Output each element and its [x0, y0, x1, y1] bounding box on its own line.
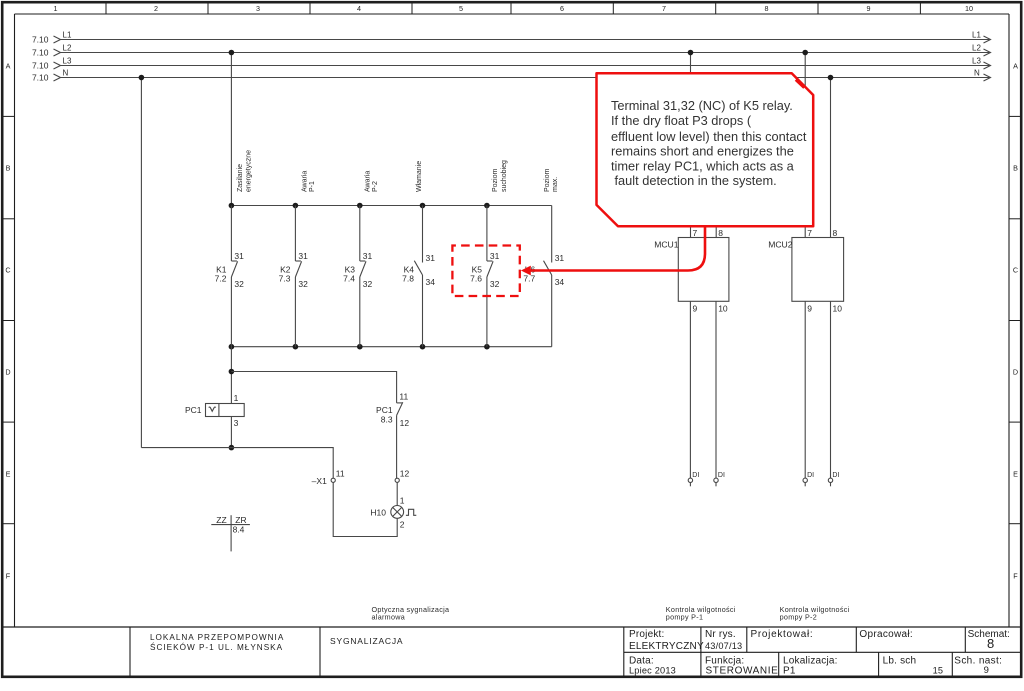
- svg-text:L1: L1: [63, 31, 72, 40]
- svg-text:MCU1: MCU1: [654, 239, 679, 249]
- svg-text:8: 8: [765, 4, 769, 13]
- svg-text:timer relay PC1, which acts as: timer relay PC1, which acts as a: [611, 158, 795, 173]
- svg-text:SYGNALIZACJA: SYGNALIZACJA: [330, 636, 403, 646]
- svg-text:11: 11: [336, 469, 345, 479]
- svg-text:D: D: [5, 368, 10, 377]
- svg-text:10: 10: [965, 4, 973, 13]
- svg-text:ZR: ZR: [235, 515, 246, 525]
- column number ticks: [106, 2, 920, 14]
- svg-text:9: 9: [984, 665, 989, 676]
- red dashed highlight box around K5: [452, 246, 519, 297]
- svg-text:7.4: 7.4: [343, 274, 355, 284]
- node N junction: [139, 75, 145, 81]
- svg-text:6: 6: [560, 4, 564, 13]
- svg-text:7.10: 7.10: [32, 61, 49, 71]
- row letters right A-F: [1013, 62, 1018, 581]
- svg-text:DI: DI: [807, 472, 814, 479]
- svg-text:8: 8: [987, 636, 994, 651]
- svg-text:7: 7: [807, 228, 812, 238]
- wire bottom bus: [231, 346, 551, 348]
- row letters left A-F: [5, 62, 10, 581]
- terminal DI 3: [803, 472, 814, 487]
- svg-text:PC1: PC1: [376, 405, 393, 415]
- cross-reference ZZ ZR 8.4: [211, 515, 250, 551]
- svg-text:Awaria: Awaria: [365, 171, 372, 192]
- svg-text:C: C: [1013, 266, 1018, 275]
- terminal pin 12: [395, 469, 409, 483]
- wire MCU2 pin9 to DI: [804, 301, 806, 478]
- label Kontrola wilgotnosci pompy P-2: [780, 605, 850, 622]
- wire -X1 down and across: [333, 482, 397, 536]
- node coil bottom junction: [229, 445, 235, 451]
- svg-text:Projekt:: Projekt:: [629, 629, 665, 640]
- terminal DI 4: [828, 472, 839, 487]
- svg-text:31: 31: [555, 253, 565, 263]
- svg-text:L2: L2: [972, 44, 981, 53]
- svg-text:15: 15: [933, 666, 944, 676]
- svg-text:Opracował:: Opracował:: [859, 629, 913, 640]
- svg-text:7.8: 7.8: [402, 274, 414, 284]
- svg-text:2: 2: [154, 4, 158, 13]
- label Optyczna sygnalizacja alarmowa: [372, 605, 450, 622]
- svg-text:7.10: 7.10: [32, 48, 49, 58]
- wire L2 drop to contact bus: [230, 53, 232, 206]
- svg-text:Lb. sch: Lb. sch: [883, 655, 917, 666]
- svg-text:Poziom: Poziom: [492, 168, 499, 192]
- svg-text:43/07/13: 43/07/13: [705, 641, 742, 651]
- svg-text:31: 31: [298, 251, 308, 261]
- svg-text:L3: L3: [63, 57, 72, 66]
- label Poziom max: [544, 168, 559, 192]
- svg-text:10: 10: [718, 304, 728, 314]
- svg-text:34: 34: [426, 277, 436, 287]
- wire MCU2 pin8 from N: [830, 78, 832, 238]
- label Wlamanie: [416, 161, 423, 192]
- svg-text:7: 7: [693, 228, 698, 238]
- svg-text:8.3: 8.3: [381, 415, 393, 425]
- contact K3 (NC 31-32): [343, 206, 372, 347]
- svg-text:N: N: [63, 69, 69, 78]
- node L2 to MCU2: [802, 50, 808, 56]
- svg-text:7.7: 7.7: [523, 274, 535, 284]
- contact K4 (NO 31-34): [402, 206, 435, 347]
- svg-text:LOKALNA PRZEPOMPOWNIA: LOKALNA PRZEPOMPOWNIA: [150, 633, 284, 642]
- svg-text:P-2: P-2: [372, 181, 379, 192]
- svg-text:Projektował:: Projektował:: [751, 629, 814, 640]
- label Awaria P-2: [365, 171, 380, 192]
- title block texts: [150, 629, 1010, 677]
- svg-text:ELEKTRYCZNY: ELEKTRYCZNY: [629, 641, 704, 652]
- label Awaria P-1: [302, 171, 317, 192]
- svg-text:suchobieg: suchobieg: [501, 160, 508, 192]
- svg-text:ŚCIEKÓW P-1 UL. MŁYNSKA: ŚCIEKÓW P-1 UL. MŁYNSKA: [150, 641, 283, 652]
- lamp H10: [370, 496, 404, 530]
- svg-text:DI: DI: [718, 472, 725, 479]
- svg-text:10: 10: [833, 304, 843, 314]
- contact PC1 8.3 (NC 11-12): [376, 392, 409, 428]
- rail L3: [32, 57, 991, 71]
- wire MCU1 pin9 to DI: [689, 301, 691, 478]
- svg-text:32: 32: [490, 279, 500, 289]
- contact K2 (NC 31-32): [279, 206, 308, 347]
- svg-text:2: 2: [400, 519, 405, 529]
- svg-text:ZZ: ZZ: [216, 515, 226, 525]
- svg-text:7.3: 7.3: [279, 274, 291, 284]
- svg-text:5: 5: [459, 4, 463, 13]
- svg-text:31: 31: [234, 251, 244, 261]
- label Zasilanie energetyczne: [237, 150, 253, 192]
- wire PC1 coil to N loop: [230, 417, 232, 448]
- svg-text:32: 32: [298, 279, 308, 289]
- label Poziom suchobieg: [492, 160, 508, 192]
- svg-text:P1: P1: [783, 666, 796, 677]
- module MCU2: [768, 228, 843, 314]
- svg-text:12: 12: [400, 418, 410, 428]
- wire bottom bus to PC1 coil: [230, 347, 232, 404]
- svg-text:fault detection in the system.: fault detection in the system.: [615, 173, 777, 188]
- contact K5 (NC 31-32): [470, 206, 499, 347]
- svg-text:7.6: 7.6: [470, 274, 482, 284]
- wire MCU2 pin7 from L2: [804, 53, 806, 238]
- svg-text:MCU2: MCU2: [768, 239, 793, 249]
- svg-text:Awaria: Awaria: [302, 171, 309, 192]
- svg-text:STEROWANIE: STEROWANIE: [706, 666, 779, 677]
- svg-text:9: 9: [867, 4, 871, 13]
- svg-text:31: 31: [426, 253, 436, 263]
- svg-text:9: 9: [807, 304, 812, 314]
- node branch junction: [229, 369, 235, 375]
- rail L1: [32, 31, 991, 45]
- wire MCU1 pin8 from N: [715, 78, 717, 238]
- svg-text:7.10: 7.10: [32, 35, 49, 45]
- relay coil PC1: [185, 393, 244, 428]
- svg-text:H10: H10: [370, 507, 386, 517]
- svg-text:DI: DI: [692, 472, 699, 479]
- svg-text:E: E: [1013, 470, 1018, 479]
- svg-text:L3: L3: [972, 57, 981, 66]
- svg-text:pompy P-2: pompy P-2: [780, 613, 817, 622]
- wire MCU1 pin7 from L2: [690, 53, 692, 238]
- svg-text:F: F: [6, 572, 11, 581]
- svg-text:7.2: 7.2: [215, 274, 227, 284]
- node N to MCU2: [828, 75, 834, 81]
- contact K1 (NC 31-32): [215, 206, 244, 347]
- svg-text:11: 11: [399, 392, 408, 402]
- svg-text:B: B: [1013, 164, 1018, 173]
- red callout box: [597, 73, 814, 226]
- wire N drop to PC1 loop: [140, 78, 142, 448]
- rail N: [32, 69, 991, 83]
- svg-text:L1: L1: [972, 31, 981, 40]
- svg-text:energetyczne: energetyczne: [246, 150, 253, 192]
- row letter ticks right: [1009, 116, 1022, 523]
- svg-text:1: 1: [54, 4, 58, 13]
- red leader line with arrow: [521, 226, 705, 275]
- svg-text:32: 32: [363, 279, 373, 289]
- svg-text:12: 12: [400, 469, 410, 479]
- node bottom bus junctions: [229, 344, 490, 350]
- svg-text:E: E: [6, 470, 11, 479]
- wire MCU1 pin10 to DI: [715, 301, 717, 478]
- svg-text:32: 32: [234, 279, 244, 289]
- svg-text:effluent low level) then this: effluent low level) then this contact: [611, 129, 807, 144]
- svg-text:4: 4: [357, 4, 361, 13]
- svg-text:31: 31: [490, 251, 500, 261]
- svg-text:L2: L2: [63, 44, 72, 53]
- wire top bus: [231, 205, 551, 207]
- svg-text:PC1: PC1: [185, 405, 202, 415]
- svg-text:DI: DI: [832, 472, 839, 479]
- wire N loop horizontal: [141, 448, 333, 479]
- svg-text:1: 1: [234, 393, 239, 403]
- svg-text:7: 7: [662, 4, 666, 13]
- svg-text:1: 1: [400, 496, 405, 506]
- contact K6 (NO 31-34): [523, 206, 564, 347]
- svg-text:max.: max.: [552, 177, 559, 192]
- blink symbol: [406, 509, 416, 515]
- svg-text:F: F: [1013, 572, 1018, 581]
- node L2 to MCU1: [688, 50, 694, 56]
- wire branch to PC1 contact: [231, 372, 396, 403]
- svg-text:Lpiec 2013: Lpiec 2013: [629, 666, 676, 676]
- rail L2: [32, 44, 991, 58]
- svg-text:N: N: [974, 69, 980, 78]
- svg-text:9: 9: [693, 304, 698, 314]
- svg-text:alarmowa: alarmowa: [372, 613, 406, 622]
- terminal -X1 pin 11: [312, 469, 345, 486]
- terminal DI 2: [714, 472, 725, 487]
- svg-text:If the dry float P3 drops (: If the dry float P3 drops (: [611, 113, 752, 128]
- svg-text:3: 3: [256, 4, 260, 13]
- svg-text:remains short and energizes th: remains short and energizes the: [611, 144, 794, 159]
- label Kontrola wilgotnosci pompy P-1: [666, 605, 736, 622]
- svg-text:Poziom: Poziom: [544, 168, 551, 192]
- module MCU1: [654, 228, 729, 314]
- svg-text:8: 8: [718, 228, 723, 238]
- row letter ticks left: [2, 116, 15, 523]
- svg-text:3: 3: [234, 418, 239, 428]
- node top bus junctions: [229, 203, 490, 209]
- svg-text:31: 31: [363, 251, 373, 261]
- svg-text:7.10: 7.10: [32, 73, 49, 83]
- column numbers 1-10: [54, 4, 974, 13]
- svg-text:8.4: 8.4: [233, 525, 245, 535]
- title block: [130, 627, 1022, 677]
- svg-text:D: D: [1013, 368, 1018, 377]
- svg-text:Terminal 31,32 (NC) of K5 rela: Terminal 31,32 (NC) of K5 relay.: [611, 98, 793, 113]
- svg-text:B: B: [6, 164, 11, 173]
- wire terminal 12 up to PC1 contact: [396, 415, 398, 478]
- svg-text:–X1: –X1: [312, 476, 327, 486]
- svg-text:A: A: [1013, 62, 1018, 71]
- wire lamp to terminal 12: [396, 482, 398, 505]
- terminal DI 1: [688, 472, 699, 487]
- svg-text:Włamanie: Włamanie: [416, 161, 423, 192]
- svg-text:C: C: [5, 266, 10, 275]
- svg-text:A: A: [6, 62, 11, 71]
- svg-text:pompy P-1: pompy P-1: [666, 613, 703, 622]
- callout text: [611, 98, 807, 188]
- node L2 junction: [229, 50, 235, 56]
- svg-text:Nr rys.: Nr rys.: [705, 629, 736, 640]
- svg-text:34: 34: [555, 277, 565, 287]
- svg-text:P-1: P-1: [309, 181, 316, 192]
- wire MCU2 pin10 to DI: [830, 301, 832, 478]
- svg-text:Zasilanie: Zasilanie: [237, 164, 244, 192]
- svg-text:8: 8: [833, 228, 838, 238]
- svg-text:Sch. nast:: Sch. nast:: [954, 655, 1002, 666]
